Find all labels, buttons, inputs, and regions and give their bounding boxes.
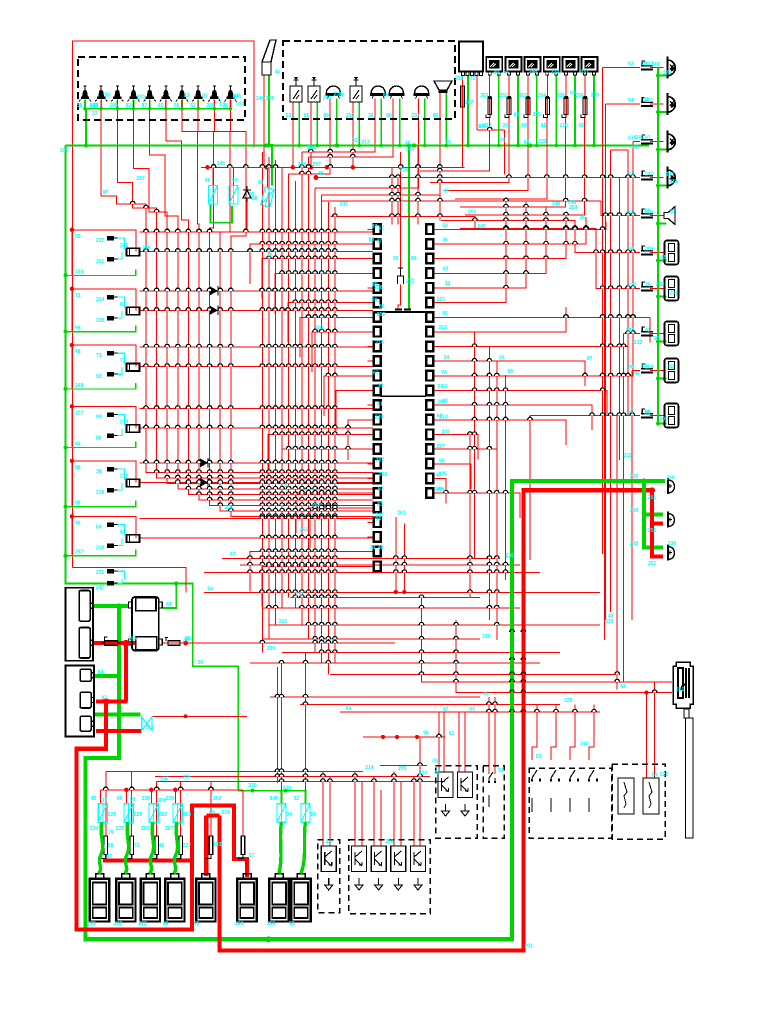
svg-text:253: 253	[518, 93, 527, 99]
wire	[340, 711, 600, 713]
socket XS1	[665, 241, 679, 265]
wire	[140, 250, 374, 252]
wire	[443, 712, 445, 772]
svg-text:212: 212	[439, 325, 448, 331]
svg-text:69: 69	[166, 602, 172, 608]
svg-text:97: 97	[103, 190, 109, 196]
svg-text:61: 61	[435, 770, 441, 776]
svg-text:244: 244	[256, 96, 265, 102]
svg-text:239: 239	[605, 619, 614, 625]
wire thick green bulb3	[644, 515, 663, 548]
dashed enclosure B	[349, 840, 431, 914]
wire pin stub	[433, 272, 439, 274]
wire	[140, 427, 374, 429]
wire lamp E7 feed	[182, 100, 373, 501]
wire	[476, 76, 478, 131]
wire	[488, 697, 490, 774]
wire	[529, 416, 531, 561]
wire lamp E6 feed	[166, 100, 373, 495]
svg-text:50: 50	[628, 247, 634, 253]
svg-text:41: 41	[628, 172, 634, 178]
wire	[85, 109, 87, 146]
wire	[269, 624, 600, 626]
wire	[460, 118, 566, 207]
connector pin XP2-2	[426, 239, 433, 249]
wire	[262, 259, 373, 299]
connector pin XP2-18	[426, 474, 433, 484]
fuse F3	[524, 96, 530, 117]
indicator bulb E3	[111, 86, 123, 102]
wire	[530, 415, 640, 417]
wire	[140, 407, 374, 409]
svg-text:237: 237	[580, 69, 589, 75]
wire thick red inner left	[204, 816, 208, 876]
wire	[242, 790, 244, 836]
fuse FH2	[165, 638, 180, 646]
svg-text:220: 220	[419, 771, 428, 777]
wire	[602, 68, 604, 555]
fuse FB5	[206, 836, 213, 859]
svg-text:80: 80	[386, 113, 392, 119]
svg-text:227: 227	[436, 444, 445, 450]
svg-text:232: 232	[340, 202, 349, 208]
svg-text:247: 247	[645, 172, 654, 178]
wire	[289, 99, 331, 175]
svg-text:58: 58	[442, 224, 448, 230]
wire	[496, 361, 498, 641]
relay switch S2	[308, 77, 320, 102]
svg-text:222: 222	[628, 283, 637, 289]
wire	[433, 207, 546, 273]
switch SA3	[550, 770, 560, 812]
svg-text:239: 239	[375, 414, 384, 420]
dashed enclosure E	[529, 768, 612, 838]
svg-text:57: 57	[379, 226, 385, 232]
wire	[305, 791, 307, 804]
wire	[250, 244, 373, 284]
svg-text:82: 82	[632, 144, 638, 150]
svg-text:251: 251	[648, 561, 657, 567]
svg-text:250: 250	[630, 508, 639, 514]
wire mesh vertical	[261, 152, 263, 653]
wire	[336, 99, 338, 146]
svg-text:224: 224	[96, 297, 105, 303]
coil module N3	[141, 874, 160, 922]
wire pin stub	[368, 551, 374, 553]
wire	[322, 772, 324, 847]
wire	[632, 370, 640, 372]
wire lamp E5 feed	[150, 100, 374, 490]
switch SA1	[488, 772, 496, 807]
connector pin XP1-20	[374, 503, 381, 513]
wire pin stub	[368, 316, 374, 318]
dome lamp E17	[414, 86, 430, 98]
wire	[536, 75, 538, 146]
connector pin XP1-12	[374, 386, 381, 396]
svg-text:70: 70	[134, 843, 140, 849]
svg-text:38: 38	[579, 215, 585, 221]
svg-text:46: 46	[405, 140, 411, 146]
wire	[433, 212, 566, 259]
svg-text:224: 224	[90, 826, 99, 832]
svg-text:88: 88	[75, 465, 81, 471]
svg-text:261: 261	[397, 511, 406, 517]
svg-text:209: 209	[398, 766, 407, 772]
wire	[433, 222, 606, 229]
svg-text:59: 59	[311, 812, 317, 818]
wire ignition feed 2	[456, 620, 672, 693]
connector pin XP1-5	[374, 283, 381, 293]
svg-text:200: 200	[109, 103, 118, 109]
socket XS5	[665, 404, 679, 428]
wire	[305, 653, 307, 791]
dome lamp E16	[388, 86, 404, 98]
svg-text:89: 89	[372, 298, 378, 304]
connector pin XP2-15	[426, 430, 433, 440]
svg-text:258: 258	[374, 285, 383, 291]
wire	[268, 435, 373, 475]
wire	[616, 416, 618, 690]
wire	[309, 99, 394, 158]
svg-text:56: 56	[174, 103, 180, 109]
svg-text:238: 238	[206, 103, 215, 109]
svg-text:227: 227	[96, 238, 105, 244]
ignition lead 3	[149, 822, 153, 873]
wire	[140, 537, 374, 539]
fuse FC2	[124, 804, 133, 823]
connector pin XP2-8	[426, 327, 433, 337]
relay switch S1	[290, 77, 302, 102]
wire hop marks	[104, 127, 657, 789]
wire	[584, 75, 586, 98]
wire mesh vertical	[288, 174, 290, 598]
indicator bulb E7	[176, 86, 188, 102]
svg-text:234: 234	[333, 92, 342, 98]
svg-text:46: 46	[634, 371, 640, 377]
svg-text:36: 36	[442, 238, 448, 244]
svg-text:65: 65	[443, 188, 449, 194]
wire pin stub	[433, 390, 439, 392]
svg-text:59: 59	[507, 369, 513, 375]
wire	[155, 776, 430, 778]
wire	[433, 479, 446, 504]
speaker B1	[664, 207, 675, 225]
wire thick red batt	[93, 641, 136, 645]
svg-text:86: 86	[96, 435, 102, 441]
wire	[433, 464, 471, 489]
socket XS2	[665, 277, 679, 301]
wire pin stub	[433, 360, 439, 362]
wire	[462, 107, 464, 167]
svg-text:201: 201	[60, 148, 69, 154]
wire green u-link	[211, 204, 233, 223]
coil module N7	[269, 874, 288, 922]
socket XS4	[665, 359, 679, 383]
svg-text:225: 225	[660, 772, 669, 778]
wire thick red inner right + feed	[220, 490, 653, 950]
connector pin XP1-3	[374, 254, 381, 264]
wire thick green bowtie	[94, 712, 140, 716]
fuse FB1	[101, 836, 108, 859]
wire	[650, 288, 664, 290]
wire	[296, 493, 373, 533]
svg-text:238: 238	[142, 796, 151, 802]
svg-text:98: 98	[75, 326, 81, 332]
switch mast	[686, 718, 694, 838]
wire	[262, 566, 373, 606]
connector pin XP2-19	[426, 488, 433, 498]
wire	[315, 99, 418, 189]
svg-text:201: 201	[525, 944, 534, 950]
svg-text:200: 200	[437, 399, 446, 405]
svg-text:64: 64	[524, 140, 530, 146]
svg-text:246: 246	[308, 145, 317, 151]
ignition lead 7	[279, 822, 282, 873]
wire	[650, 67, 664, 69]
battery GB1	[129, 597, 163, 651]
wire pin stub	[368, 331, 374, 333]
wire lamp ground stub	[658, 260, 667, 262]
svg-text:89: 89	[90, 104, 96, 110]
svg-text:260: 260	[235, 921, 244, 927]
connector pin XP1-7	[374, 312, 381, 322]
svg-text:238: 238	[455, 76, 464, 82]
svg-text:259: 259	[346, 113, 355, 119]
wire	[610, 150, 612, 612]
svg-text:95: 95	[483, 692, 489, 698]
svg-text:222: 222	[138, 921, 147, 927]
wire pin stub	[368, 360, 374, 362]
connector pin XP2-7	[426, 312, 433, 322]
svg-text:209: 209	[157, 798, 166, 804]
svg-text:254: 254	[538, 93, 547, 99]
svg-text:203: 203	[213, 842, 222, 848]
wire	[204, 592, 600, 594]
svg-text:240: 240	[477, 224, 486, 230]
svg-text:50: 50	[653, 336, 659, 342]
wire	[400, 782, 402, 847]
svg-text:213: 213	[439, 414, 448, 420]
wire mesh vertical	[327, 202, 329, 675]
connector pin XP1-9	[374, 342, 381, 352]
wire lamp E1 ground	[84, 100, 86, 109]
coil module N6	[237, 874, 256, 922]
wire	[262, 607, 520, 609]
wire	[310, 508, 373, 548]
wire mesh vertical	[301, 152, 303, 625]
wire pin stub	[433, 228, 439, 230]
wire	[277, 667, 279, 783]
wire lamp E5 ground	[149, 100, 151, 109]
svg-text:38: 38	[96, 469, 102, 475]
svg-text:97: 97	[645, 136, 651, 142]
connector pin XP2-14	[426, 415, 433, 425]
wire	[631, 371, 633, 621]
wire	[504, 130, 506, 174]
fuse F6	[581, 96, 587, 117]
gauge P6	[582, 57, 598, 75]
wire	[352, 102, 354, 167]
wire	[125, 790, 127, 804]
connector pin XP2-9	[426, 342, 433, 352]
wire lamp ground stub	[658, 341, 667, 343]
svg-text:73: 73	[96, 353, 102, 359]
valve Y1	[142, 717, 152, 730]
svg-text:46: 46	[159, 843, 165, 849]
svg-text:58: 58	[108, 843, 114, 849]
connector pin XP2-1	[426, 224, 433, 234]
svg-text:213: 213	[361, 140, 370, 146]
fuse FB3	[152, 836, 159, 859]
socket XS3	[665, 322, 679, 346]
svg-text:70: 70	[500, 138, 506, 144]
connector pin XP1-19	[374, 488, 381, 498]
wire	[458, 712, 460, 772]
connector pin XP1-22	[374, 532, 381, 542]
switch SA4	[569, 770, 579, 812]
svg-text:88: 88	[252, 196, 258, 202]
svg-text:215: 215	[624, 453, 633, 459]
wire main green bus	[66, 145, 650, 147]
wire	[627, 150, 629, 416]
svg-text:43: 43	[326, 840, 332, 846]
wire	[395, 517, 397, 592]
wire	[363, 736, 445, 738]
wire pin stub	[368, 346, 374, 348]
wire	[467, 76, 469, 146]
connector pin XP2-11	[426, 371, 433, 381]
connector block XB2	[65, 665, 94, 736]
wire	[433, 420, 566, 445]
ignition lead 4	[174, 822, 178, 873]
wire	[73, 568, 187, 593]
connector pin XP1-8	[374, 327, 381, 337]
control unit U2	[459, 42, 483, 76]
connector pin XP2-3	[426, 254, 433, 264]
wire	[654, 682, 656, 778]
svg-text:88: 88	[628, 365, 634, 371]
svg-text:63: 63	[449, 731, 455, 737]
svg-text:239: 239	[668, 541, 677, 547]
wire pin stub	[433, 478, 439, 480]
wire	[469, 432, 471, 597]
svg-text:248: 248	[75, 383, 84, 389]
svg-text:36: 36	[368, 113, 374, 119]
connector X8	[641, 327, 653, 336]
svg-text:59: 59	[209, 810, 215, 816]
svg-text:37: 37	[377, 238, 383, 244]
relay switch S4	[350, 77, 362, 102]
wire mesh vertical	[308, 157, 310, 639]
svg-text:61: 61	[643, 97, 649, 103]
wire pin stub	[433, 243, 439, 245]
svg-text:67: 67	[373, 371, 379, 377]
svg-text:84: 84	[641, 364, 647, 370]
svg-text:92: 92	[96, 374, 102, 380]
wire thick green xb2	[94, 674, 119, 678]
svg-text:63: 63	[443, 267, 449, 273]
svg-text:57: 57	[233, 94, 239, 100]
fuse FB4	[176, 836, 183, 859]
coil module N5	[196, 874, 215, 922]
capacitor C1	[398, 268, 404, 284]
wire	[570, 705, 575, 761]
dome lamp E13	[325, 86, 341, 98]
wire	[532, 705, 537, 761]
transistor VT2	[352, 846, 367, 890]
svg-text:65: 65	[158, 103, 164, 109]
svg-text:51: 51	[498, 768, 504, 774]
wire	[288, 303, 373, 343]
bulb EL1	[668, 478, 675, 494]
svg-text:246: 246	[635, 135, 644, 141]
wire lamp E10 ground	[230, 100, 232, 109]
wire thick red fuse bus	[103, 858, 192, 862]
connector pin XP1-18	[374, 474, 381, 484]
wire pin stub	[368, 228, 374, 230]
svg-text:90: 90	[494, 70, 500, 76]
svg-text:201: 201	[96, 259, 105, 265]
wire green lamp bus	[85, 108, 231, 110]
dashed enclosure lamps-left	[78, 57, 245, 120]
fuse F4	[543, 96, 549, 117]
ignition lead 1	[99, 822, 103, 873]
fuse FC4	[173, 804, 182, 823]
cyan link X7	[118, 571, 125, 583]
wire ignition feed 1	[422, 595, 673, 682]
wire lamp ground stub	[658, 423, 667, 425]
wire green branch bottom	[238, 790, 306, 792]
indicator bulb E8	[192, 86, 204, 102]
wire lamp E7 ground	[181, 100, 183, 109]
svg-text:54: 54	[652, 772, 658, 778]
wire	[246, 202, 248, 232]
gauge P2	[506, 57, 522, 75]
wire	[508, 75, 510, 98]
connector pin XP2-5	[426, 283, 433, 293]
svg-text:50: 50	[628, 410, 634, 416]
wire pin stub	[368, 448, 374, 450]
svg-text:243: 243	[312, 503, 321, 509]
svg-text:235: 235	[267, 646, 276, 652]
svg-text:74: 74	[370, 545, 376, 551]
fuse F1	[486, 96, 492, 117]
fuse FU1	[208, 186, 217, 205]
wire	[439, 146, 441, 221]
wire	[494, 697, 496, 774]
svg-text:255: 255	[533, 112, 542, 118]
diode VD3	[210, 306, 218, 316]
connector X7	[641, 282, 653, 291]
svg-text:69: 69	[570, 91, 576, 97]
wire mesh vertical	[314, 188, 316, 653]
wire thick red bulb2	[652, 490, 663, 523]
wire lamp E8 feed	[198, 100, 373, 506]
wire	[650, 141, 664, 143]
wire	[240, 564, 520, 566]
wire	[99, 790, 101, 804]
bulb EL2	[668, 512, 675, 528]
wire	[212, 167, 214, 185]
svg-text:42: 42	[91, 796, 97, 802]
wire	[593, 75, 595, 146]
svg-text:37: 37	[102, 798, 108, 804]
svg-text:90: 90	[442, 311, 448, 317]
wire	[162, 584, 176, 609]
wire	[140, 309, 374, 311]
wire	[282, 449, 373, 489]
svg-text:205: 205	[645, 247, 654, 253]
